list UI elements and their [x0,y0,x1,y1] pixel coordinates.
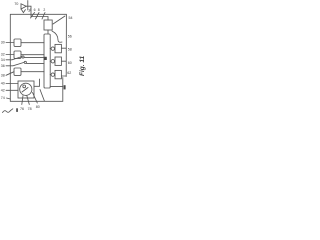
wire L2 to bus [21,54,44,56]
AC squiggle mark [3,109,13,113]
svg-text:38: 38 [1,73,5,77]
wire into motor box [6,83,18,85]
mark B [16,108,18,112]
wire block52 to control column [47,30,49,34]
wire [6,42,14,44]
svg-text:32: 32 [1,52,5,56]
output circle node 3 [51,73,54,76]
svg-text:30: 30 [1,40,5,44]
wire from motor box right [34,79,40,86]
wire L1 to bus [21,42,44,44]
wire from Q1 output [26,6,48,20]
input block L1 [14,39,21,46]
emitter V mark [22,10,26,13]
control column 50 (tall rect) [44,34,50,88]
wire R3 to frame [50,75,66,76]
output block R3 [55,70,61,78]
wire R1 to frame [50,47,66,49]
svg-text:78: 78 [28,107,32,111]
svg-text:80: 80 [36,105,40,109]
leader to label 76 [22,96,23,105]
switch contact row 2 [6,62,24,65]
leader from label 8 [42,13,45,20]
svg-text:8: 8 [38,8,40,12]
leader arc to label 56 [52,31,62,42]
svg-text:58: 58 [68,47,72,51]
output block R1 [55,44,61,52]
output block R2 [55,57,61,65]
motor box [18,81,34,98]
svg-text:40: 40 [1,81,5,85]
svg-text:4: 4 [29,8,31,12]
collector line [27,1,29,11]
svg-text:76: 76 [20,107,24,111]
wire [6,72,14,76]
svg-text:2: 2 [43,8,45,12]
leader to label 78 [27,96,30,105]
svg-text:62: 62 [67,71,71,75]
leader to label 80 [33,93,38,104]
svg-text:Fig. 11: Fig. 11 [79,56,86,76]
label 64 [64,85,66,89]
switch contact row 1 [6,57,22,60]
svg-text:56: 56 [68,35,72,39]
block 52 (top center) [44,20,52,30]
wire R2 to frame [50,60,66,62]
wire [6,54,14,56]
wire bus bottom to lower frame [50,85,63,87]
leader extra [40,90,44,102]
phototransistor Q1 [21,4,26,9]
svg-text:34: 34 [1,58,5,62]
leader to frame [7,98,11,99]
leader to label 54 [53,16,65,24]
wire L3 to bus [21,71,44,73]
output circle node 1 [51,47,54,50]
svg-text:54: 54 [69,16,73,20]
svg-text:6: 6 [34,8,36,12]
svg-text:42: 42 [1,88,5,92]
svg-text:60: 60 [68,61,72,65]
motor circle [20,83,32,95]
wire into motor box [6,89,18,91]
commutator inner circle [23,85,26,88]
leader from label 6 [36,13,40,20]
leader from label 4 [31,13,35,19]
svg-text:36: 36 [1,64,5,68]
brush line [22,88,28,93]
label mark inside column [44,57,47,60]
input block L2 [14,51,21,58]
output circle node 2 [51,60,54,63]
svg-text:74: 74 [1,96,5,100]
svg-text:70: 70 [14,2,18,6]
enclosure frame [10,14,66,101]
input block L3 [14,68,21,75]
